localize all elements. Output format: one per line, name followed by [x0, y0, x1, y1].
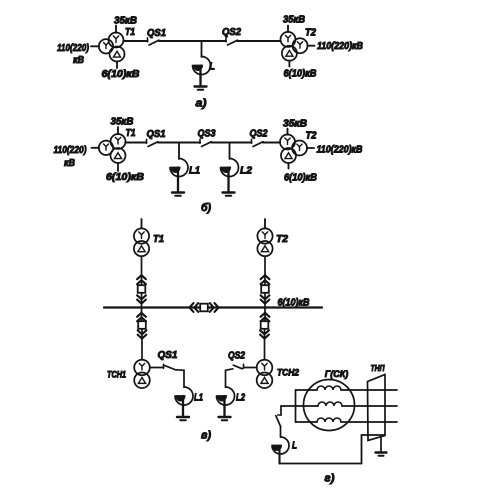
svg-text:35кВ: 35кВ	[283, 119, 307, 130]
wire phase3 right	[341, 421, 397, 423]
label QS2 (fig v)	[228, 351, 245, 362]
wire T2b 35kV lead	[287, 129, 289, 135]
reactor L2 (fig v)	[217, 387, 235, 405]
svg-text:QS2: QS2	[228, 351, 245, 362]
current transformer ТНП	[368, 375, 386, 441]
svg-text:в): в)	[201, 430, 211, 442]
label Т2 (fig v)	[276, 234, 288, 245]
wire bus a seg3	[238, 40, 281, 42]
svg-text:L1: L1	[189, 166, 200, 177]
disconnector QS2 (fig v)	[233, 364, 243, 369]
svg-text:35кВ: 35кВ	[283, 15, 305, 26]
transformer T1 (fig v)	[134, 228, 149, 256]
wire TCH2 to QS2	[244, 367, 257, 369]
wire TCH1 feeder upper	[141, 308, 143, 322]
label L1 (fig v)	[194, 393, 203, 404]
transformer TCH2	[257, 360, 273, 388]
breaker box (T1v)	[138, 285, 146, 293]
transformer T1	[99, 33, 125, 62]
reactor L (fig g)	[272, 437, 289, 454]
label 35кВ (fig a T1)	[114, 16, 137, 27]
generator winding phase 2	[318, 402, 342, 406]
wire switch to reactor L	[280, 427, 282, 437]
wire switch upper lead	[280, 406, 282, 415]
wire T2 35kV lead	[287, 26, 289, 33]
svg-text:110(220): 110(220)	[57, 43, 90, 54]
label ТСН1	[107, 370, 126, 380]
wire phase2 right	[342, 405, 397, 407]
generator winding phase 1	[317, 386, 341, 390]
wire neutral bus vertical	[295, 390, 297, 422]
wire bus b seg4	[263, 142, 280, 144]
svg-text:6(10)кВ: 6(10)кВ	[102, 69, 140, 80]
label L (fig g)	[292, 441, 297, 452]
svg-text:Т2: Т2	[305, 28, 316, 39]
wire TCH2 feeder lower	[264, 329, 266, 360]
svg-text:35кВ: 35кВ	[111, 117, 134, 128]
transformer TCH1	[134, 360, 150, 388]
label 110(220)кВ (fig b T2)	[317, 145, 363, 156]
label 35кВ (fig b T1)	[111, 117, 134, 128]
wire reactor L down	[278, 446, 280, 464]
wire TCH1 feeder lower	[141, 329, 143, 360]
svg-text:110(220)кВ: 110(220)кВ	[317, 145, 363, 156]
wire T1v down	[141, 256, 143, 285]
label QS1 (fig v)	[158, 350, 178, 361]
svg-text:Г(СК): Г(СК)	[325, 369, 349, 380]
wire TCH2 feeder upper	[264, 308, 266, 322]
wire phase1 right	[341, 389, 397, 391]
wire T2 110kV lead	[307, 45, 314, 47]
wire phase3 left	[296, 421, 318, 423]
transformer T2 (fig a)	[281, 32, 308, 61]
label г)	[325, 473, 335, 485]
label Т2 (fig a)	[305, 28, 316, 39]
wire T1b 110kV lead	[92, 147, 100, 149]
wire T2v down	[264, 256, 266, 285]
section breaker arrows right	[210, 303, 219, 312]
feeder arrows up (TCH2)	[261, 313, 270, 322]
label ТСН2	[277, 368, 299, 378]
svg-text:QS1: QS1	[158, 350, 178, 361]
wire bus b seg3	[212, 142, 252, 144]
wire reactor L1 to ground	[177, 168, 179, 192]
wire bus b seg1	[125, 142, 146, 144]
reactor L1 (fig v)	[175, 387, 193, 405]
svg-text:Т2: Т2	[276, 234, 288, 245]
disconnector QS1 (fig a)	[148, 38, 160, 45]
label 110(220)кВ (fig b T1)	[54, 145, 88, 169]
section breaker arrows left	[190, 303, 199, 312]
disconnector QS2 (fig a)	[226, 38, 238, 45]
svg-text:L: L	[292, 441, 297, 452]
svg-text:Т1: Т1	[125, 27, 135, 38]
busbar 6(10)kV left part	[104, 306, 200, 308]
label 6(10)кВ (fig v)	[278, 298, 310, 309]
wire T2b 110kV lead	[307, 147, 314, 149]
label QS3 (fig b)	[198, 129, 216, 140]
label 110(220)кВ (fig a T1)	[57, 43, 90, 66]
svg-text:QS3: QS3	[198, 129, 216, 140]
generator winding phase 3	[317, 418, 341, 422]
reactor L2 (fig b)	[221, 159, 239, 177]
wire T2v box to bus	[264, 293, 266, 308]
label QS2 (fig b)	[250, 129, 268, 140]
wire T1v box to bus	[141, 293, 143, 308]
svg-text:110(220)кВ: 110(220)кВ	[317, 41, 363, 52]
breaker truck arrows down (T1v)	[137, 295, 146, 303]
feeder arrows down (TCH2)	[260, 330, 269, 338]
label Т2 (fig b)	[306, 131, 317, 142]
label Г(СК)	[325, 369, 349, 380]
wire T1v top lead	[141, 219, 143, 228]
wire neutral to TNP	[362, 434, 385, 436]
wire T1 35kV lead	[115, 26, 117, 33]
label 6(10)кВ (fig a T2)	[284, 69, 317, 80]
ground L2 (fig b)	[223, 193, 235, 196]
breaker truck arrows down (T2v)	[261, 295, 270, 303]
svg-text:QS1: QS1	[147, 28, 166, 39]
label QS1 (fig a)	[147, 28, 166, 39]
transformer T2 (fig v)	[257, 228, 272, 256]
wire T1 110kV lead	[91, 45, 99, 47]
wire reactor L1v to ground	[182, 396, 184, 416]
svg-text:кВ: кВ	[73, 55, 84, 66]
wire T2b 6kV lead	[288, 163, 290, 169]
disconnector QS3 (fig b)	[200, 139, 212, 146]
wire reactor tap (fig a)	[201, 41, 203, 57]
svg-text:110(220): 110(220)	[54, 145, 88, 156]
disconnector QS2 (fig b)	[252, 139, 264, 146]
transformer T1 (fig b)	[99, 134, 126, 163]
svg-text:б): б)	[201, 202, 211, 214]
svg-text:ТСН1: ТСН1	[107, 370, 126, 380]
wire T2 6kV lead	[288, 61, 290, 67]
breaker box (T2v)	[261, 285, 269, 293]
ground (fig a)	[195, 87, 207, 90]
label 6(10)кВ (fig b T1)	[106, 172, 144, 183]
generator G(SK) circle	[304, 380, 355, 431]
wire T1b 35kV lead	[117, 127, 119, 134]
label Т1 (fig a)	[125, 27, 135, 38]
svg-text:6(10)кВ: 6(10)кВ	[284, 69, 317, 80]
breaker truck arrows up (T1v)	[137, 275, 146, 284]
wire reactor L to ground	[199, 66, 201, 86]
ground L1 (fig v)	[177, 417, 189, 420]
feeder box (TCH1)	[138, 321, 146, 329]
wire T1 6kV lead	[116, 61, 118, 68]
svg-text:6(10)кВ: 6(10)кВ	[284, 173, 317, 184]
switch contact (fig g)	[276, 415, 281, 427]
svg-text:а): а)	[196, 98, 207, 110]
label L (fig a)	[209, 62, 215, 73]
wire reactor tap1 (fig b)	[178, 143, 180, 160]
wire neutral bottom run	[280, 463, 362, 465]
svg-text:кВ: кВ	[64, 158, 75, 169]
label в)	[201, 430, 211, 442]
feeder arrows down (TCH1)	[138, 330, 147, 338]
wire phase2 left	[281, 405, 318, 407]
svg-text:QS2: QS2	[222, 27, 241, 38]
label ТНП	[371, 363, 386, 373]
feeder arrows up (TCH1)	[137, 313, 146, 322]
svg-text:L2: L2	[236, 393, 245, 404]
label QS1 (fig b)	[147, 129, 166, 140]
svg-text:г): г)	[325, 473, 335, 485]
wire TCH1 to QS1	[150, 367, 164, 369]
wire reactor tap2 (fig b)	[229, 143, 231, 160]
label 110(220)кВ (fig a T2)	[317, 41, 363, 52]
svg-text:L2: L2	[240, 166, 252, 177]
wire QS1 to reactor L1	[177, 370, 185, 387]
svg-text:L: L	[209, 62, 215, 73]
busbar 6(10)kV right part	[208, 306, 322, 308]
disconnector QS1 (fig v)	[164, 364, 177, 370]
wire bus a seg1	[123, 40, 147, 42]
wire TNP ground lead	[380, 437, 382, 452]
label QS2 (fig a)	[222, 27, 241, 38]
svg-text:6(10)кВ: 6(10)кВ	[106, 172, 144, 183]
wire bus a seg2	[159, 40, 226, 42]
ground L2 (fig v)	[219, 417, 231, 420]
label 6(10)кВ (fig a T1)	[102, 69, 140, 80]
label 6(10)кВ (fig b T2)	[284, 173, 317, 184]
reactor L1 (fig b)	[170, 159, 188, 177]
label 35кВ (fig b T2)	[283, 119, 307, 130]
svg-text:QS2: QS2	[250, 129, 268, 140]
wire neutral riser	[361, 435, 363, 464]
label Т1 (fig b)	[126, 128, 136, 139]
ground L1 (fig b)	[172, 193, 184, 196]
svg-text:QS1: QS1	[147, 129, 166, 140]
svg-text:Т1: Т1	[126, 128, 136, 139]
svg-text:35кВ: 35кВ	[114, 16, 137, 27]
ground TNP	[376, 453, 387, 456]
transformer T2 (fig b)	[280, 135, 307, 164]
wire phase1 left	[296, 389, 318, 391]
label Т1 (fig v)	[153, 234, 164, 245]
label L2 (fig b)	[240, 166, 252, 177]
label L1 (fig b)	[189, 166, 200, 177]
svg-text:L1: L1	[194, 393, 203, 404]
label б)	[201, 202, 211, 214]
disconnector QS1 (fig b)	[147, 139, 159, 146]
svg-text:ТНП: ТНП	[371, 363, 386, 373]
svg-text:Т1: Т1	[153, 234, 164, 245]
wire T2v top lead	[264, 219, 266, 228]
svg-text:Т2: Т2	[306, 131, 317, 142]
section breaker box	[200, 304, 208, 312]
breaker truck arrows up (T2v)	[261, 275, 270, 284]
label а)	[196, 98, 207, 110]
wire QS2 to reactor L2	[226, 369, 233, 387]
label 35кВ (fig a T2)	[283, 15, 305, 26]
label L2 (fig v)	[236, 393, 245, 404]
wire T1b 6kV lead	[117, 163, 119, 171]
feeder box (TCH2)	[261, 321, 269, 329]
wire bus b seg2	[158, 142, 200, 144]
wire reactor L2v to ground	[223, 396, 225, 416]
wire reactor L2 to ground	[227, 168, 229, 192]
svg-text:ТСН2: ТСН2	[277, 368, 299, 378]
svg-text:6(10)кВ: 6(10)кВ	[278, 298, 310, 309]
reactor L (fig a)	[193, 57, 211, 75]
